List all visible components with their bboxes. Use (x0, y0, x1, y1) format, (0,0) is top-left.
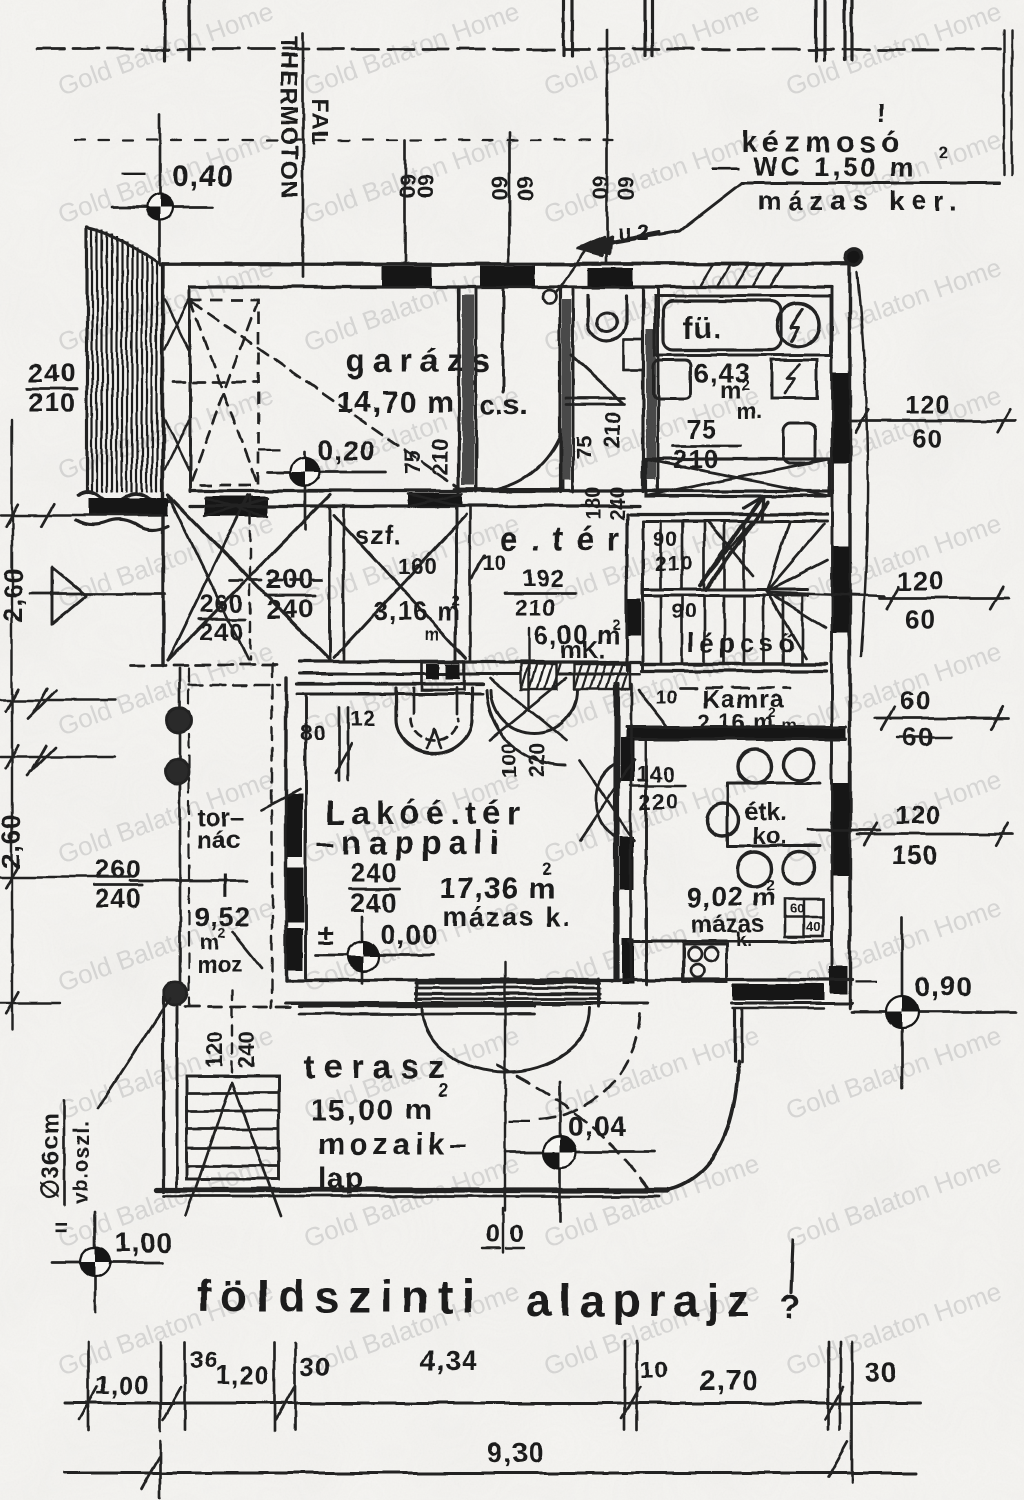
svg-text:— WC 1,50 m: — WC 1,50 m (712, 152, 916, 182)
svg-text:75: 75 (572, 436, 597, 460)
svg-text:120: 120 (905, 390, 951, 420)
svg-text:240: 240 (95, 883, 141, 913)
kezmoso leader arrow (590, 183, 742, 246)
svg-text:m.: m. (736, 398, 762, 423)
retaining strip top curve (87, 228, 163, 266)
terrace sill band (300, 1004, 534, 1007)
window axis line x509 (508, 133, 511, 263)
svg-text:—: — (855, 968, 877, 993)
north-east corner blob (846, 249, 862, 265)
door axis vertical x505 (504, 962, 506, 1210)
svg-text:15,00 m: 15,00 m (310, 1094, 434, 1127)
nappali east door X and arc (580, 760, 634, 840)
terrace right edge (733, 1010, 736, 1062)
top tick pair x645 (643, 0, 646, 55)
svg-text:=: = (54, 1215, 68, 1242)
north wall window fill 3 above wc (588, 268, 633, 286)
svg-text:260: 260 (95, 854, 141, 884)
svg-text:30: 30 (300, 1352, 331, 1382)
svg-text:36: 36 (190, 1347, 219, 1374)
tornac post 3 (163, 981, 187, 1005)
wc door swing diagonal (571, 355, 623, 403)
terrace rounded corner (668, 1062, 739, 1190)
svg-text:120: 120 (898, 566, 944, 596)
svg-text:60: 60 (413, 174, 438, 198)
svg-text:210: 210 (655, 552, 693, 575)
tornac post line (179, 668, 182, 1005)
stairs top wall (630, 512, 827, 515)
nappali west wall window fills (287, 795, 303, 857)
svg-text:mozaik–: mozaik– (318, 1128, 471, 1161)
tornac dim line (130, 880, 247, 883)
tornac top dashed line (130, 664, 283, 667)
kamra bottom wall (626, 728, 846, 738)
garage right wall (457, 287, 460, 492)
svg-text:0,40: 0,40 (172, 160, 234, 193)
terrace stairs block (187, 1076, 279, 1179)
vb oszl leader line (98, 998, 170, 1108)
south wall inner line (286, 1002, 648, 1005)
svg-text:!: ! (877, 98, 886, 128)
stairs left wall smudge (628, 598, 641, 636)
svg-text:240: 240 (234, 1031, 259, 1068)
etk leader line (808, 829, 880, 832)
hall bottom wall upper line (300, 660, 640, 663)
svg-text:c.s.: c.s. (480, 389, 527, 420)
bathtub (646, 459, 829, 496)
thermoton leader line (302, 33, 305, 277)
szf cross bracing (334, 515, 466, 658)
hatched pier 2 (574, 664, 630, 689)
svg-text:0,04: 0,04 (568, 1111, 627, 1142)
svg-text:mázas k.: mázas k. (443, 902, 572, 932)
garage long dashed diagonal (192, 302, 462, 490)
left dim vertical line (11, 420, 13, 1030)
svg-text:9,02 m: 9,02 m (687, 882, 777, 912)
svg-text:30: 30 (865, 1357, 898, 1388)
svg-text:75: 75 (400, 451, 425, 475)
svg-text:—: — (258, 436, 280, 461)
terrace top dashed edge (185, 1006, 300, 1009)
svg-text:1,00: 1,00 (95, 1370, 150, 1400)
svg-text:2,60: 2,60 (0, 567, 28, 622)
svg-text:2: 2 (612, 617, 620, 634)
svg-text:60: 60 (912, 424, 943, 454)
svg-text:terasz: terasz (304, 1048, 453, 1085)
right edge vertical dash top (1011, 30, 1013, 175)
svg-text:—: — (122, 159, 146, 186)
east wall bowed extension curve (857, 272, 868, 655)
window axis line x405 (404, 140, 407, 263)
kezmoso underline (742, 182, 1000, 185)
svg-text:160: 160 (398, 554, 438, 579)
svg-text:—: — (508, 1108, 530, 1133)
svg-text:210: 210 (514, 595, 557, 622)
svg-text:0,20: 0,20 (318, 435, 377, 466)
retaining strip left edge (85, 228, 88, 492)
svg-text:u.2: u.2 (618, 220, 650, 245)
west garage wall inner line (189, 287, 192, 492)
wc left wall (558, 287, 561, 492)
fu rounded rect (663, 301, 781, 350)
rough filter def and plan group (0, 0, 1, 1)
hatched retaining strip top-left (87, 228, 162, 492)
retaining strip footing blob (78, 491, 172, 503)
dining circle left (707, 804, 739, 836)
stairs fan extension line (770, 592, 885, 596)
terrace left wall (161, 990, 164, 1192)
kitchen counter line (629, 940, 831, 943)
west garage wall diagonal braces (165, 300, 189, 350)
north exterior wall outer line (163, 262, 853, 266)
porch x-panel frame (190, 505, 330, 508)
svg-text:60: 60 (512, 176, 537, 200)
level marker -0.04 symbol (505, 1151, 655, 1154)
hall bottom wall lower line (300, 673, 640, 676)
svg-text:e.tér: e.tér (500, 521, 633, 557)
svg-text:alaprajz: alaprajz (526, 1275, 758, 1326)
top tick pair x816 (814, 0, 817, 60)
svg-text:240: 240 (350, 858, 398, 888)
entry door swing arc (491, 690, 577, 733)
dining table rect (728, 782, 820, 785)
svg-text:lépcső: lépcső (687, 628, 799, 658)
svg-text:∅36cm: ∅36cm (37, 1113, 64, 1200)
top tick pair left wall (163, 0, 166, 60)
stair direction arrow (700, 498, 762, 585)
svg-text:±: ± (318, 919, 333, 950)
south wall outer line (286, 978, 852, 981)
svg-text:60: 60 (790, 901, 804, 916)
big dashed swing arc on terrace (497, 1065, 648, 1188)
garage dashed rect (190, 300, 258, 485)
terrace door half swing arc (422, 1008, 590, 1072)
bath top counter frame (655, 296, 831, 355)
svg-text:1,00: 1,00 (115, 1227, 174, 1258)
hall dashed line (230, 579, 330, 582)
hatched pier 1 (521, 664, 557, 689)
left dim tick y1003 (0, 1002, 60, 1004)
stairs bottom wall (642, 662, 827, 665)
kamra dashes (680, 687, 790, 690)
svg-text:2,70: 2,70 (700, 1365, 759, 1396)
wc washbasin (588, 295, 626, 341)
svg-text:80: 80 (300, 720, 326, 745)
svg-text:földszinti: földszinti (196, 1271, 483, 1322)
svg-text:2: 2 (452, 593, 460, 610)
svg-text:THERMOTON: THERMOTON (275, 36, 302, 199)
east wall window fill stairs (833, 546, 849, 633)
level marker -0.40 symbol (112, 206, 212, 209)
title exclamation (791, 1240, 793, 1292)
toilet rounded rect (783, 423, 816, 463)
svg-text:40: 40 (806, 919, 820, 934)
vent grid box (785, 899, 823, 936)
nappali west wall outer (284, 678, 287, 980)
svg-text:60: 60 (613, 176, 638, 200)
svg-text:mázas: mázas (691, 911, 764, 938)
wc right wall (shared with bath) (641, 287, 644, 492)
nappali top door arc (487, 690, 565, 766)
svg-text:2,60: 2,60 (0, 813, 26, 868)
nappali terrace window band (415, 982, 600, 985)
west garage wall outer line (161, 264, 164, 665)
garage door sill dark block (205, 496, 267, 516)
kitchen left wall (616, 684, 619, 980)
washing machine circle (777, 304, 819, 346)
bath boiler rect with bolt (771, 360, 817, 398)
szf right wall (455, 508, 458, 662)
svg-text:120: 120 (895, 800, 941, 830)
svg-text:4,34: 4,34 (420, 1345, 479, 1376)
east wall window fill bath (833, 373, 849, 463)
bottom dim second line ticks (159, 1440, 162, 1497)
svg-text:vb.oszl.: vb.oszl. (70, 1120, 93, 1205)
dim tick pair (338, 707, 341, 780)
dining circles lower (737, 852, 771, 886)
level marker 1.00 symbol (52, 1261, 162, 1264)
svg-text:2: 2 (766, 877, 775, 894)
stair treads upper flight (660, 523, 663, 589)
stairs left wall (625, 514, 628, 670)
garage dashed horizontal (173, 381, 258, 384)
left dim tick y515 (0, 514, 162, 516)
east exterior wall outer line (848, 264, 851, 1008)
svg-text:–nappali: –nappali (316, 824, 506, 861)
svg-text:0,00: 0,00 (380, 919, 439, 950)
svg-text:0,90: 0,90 (915, 971, 974, 1002)
svg-text:2: 2 (742, 377, 750, 394)
terrace stair axis dashed (231, 990, 233, 1080)
middle wall lower line (190, 504, 640, 507)
svg-text:m: m (424, 624, 440, 644)
svg-text:12: 12 (350, 706, 376, 731)
svg-text:mázas ker.: mázas ker. (757, 186, 964, 216)
porch dashed verticals (249, 495, 251, 660)
east wall window fill kitchen (833, 783, 849, 875)
svg-text:60: 60 (900, 686, 931, 716)
porch door line (30, 593, 165, 596)
top tick pair x563 (561, 0, 564, 55)
svg-text:?: ? (780, 1288, 801, 1326)
level marker -0.90 symbol (852, 1011, 1015, 1014)
nappali west wall inner (305, 694, 308, 980)
partial wall x503 (502, 287, 505, 392)
level marker 0.00 symbol (316, 954, 434, 957)
svg-text:192: 192 (522, 565, 565, 592)
svg-text:210: 210 (600, 411, 625, 448)
top dashed border line (38, 48, 1000, 51)
fireplace kandallo (396, 688, 472, 753)
svg-text:10: 10 (640, 1357, 669, 1384)
terrace bottom wall (156, 1187, 668, 1192)
garage dashed diagonal X (190, 300, 258, 485)
north wall window fill 1 (382, 266, 432, 286)
svg-text:3,16 m: 3,16 m (374, 596, 461, 626)
terrace door arc from kitchen dashed (534, 1014, 640, 1120)
wc arrow to basin (582, 232, 660, 247)
kamra door swing (638, 690, 668, 728)
svg-text:210: 210 (428, 438, 453, 475)
window axis line x607 (606, 30, 609, 263)
svg-text:140: 140 (636, 762, 676, 787)
svg-text:60: 60 (905, 604, 936, 634)
stair landing double line (643, 588, 808, 591)
north wall window fill 2 (480, 266, 535, 286)
svg-text:0: 0 (509, 1220, 523, 1248)
middle wall upper line (190, 489, 832, 492)
svg-text:2: 2 (768, 705, 776, 721)
svg-text:150: 150 (892, 840, 938, 870)
kitchen window dark fill (733, 984, 824, 1000)
north wall hatch ticks (700, 265, 712, 285)
svg-text:14,70 m: 14,70 m (337, 386, 454, 419)
svg-text:1,20: 1,20 (216, 1360, 271, 1390)
svg-text:nác: nác (197, 826, 240, 854)
svg-text:fü.: fü. (683, 312, 723, 345)
tornac leader (262, 790, 300, 810)
svg-text:mK.: mK. (560, 637, 605, 664)
svg-text:240: 240 (350, 888, 398, 918)
svg-text:2: 2 (218, 925, 226, 941)
nappali top door X (490, 678, 566, 740)
stair treads lower flight (660, 597, 663, 663)
mid wall dark marks (408, 493, 462, 506)
svg-text:FAL: FAL (306, 98, 333, 146)
svg-text:|: | (222, 871, 229, 898)
ramp sail wedge right of garage (497, 429, 563, 489)
svg-text:90: 90 (653, 528, 678, 551)
svg-text:9,30: 9,30 (487, 1437, 546, 1468)
left dim tick y757 (0, 756, 115, 758)
level marker -0.20 symbol (268, 471, 385, 474)
bath small sink rect (653, 360, 691, 399)
top tick pair x845 (843, 0, 846, 60)
bottom dim ticks and slashes (87, 1342, 90, 1430)
kezmoso leader curl (542, 290, 556, 304)
svg-text:0: 0 (486, 1220, 500, 1248)
tornac dashed inner line (271, 664, 273, 1008)
svg-text:2: 2 (438, 1080, 448, 1100)
terrace stairs V lines (186, 1082, 232, 1216)
svg-text:210: 210 (28, 388, 76, 418)
svg-text:moz: moz (198, 952, 242, 977)
svg-text:180: 180 (583, 487, 605, 520)
svg-text:2: 2 (938, 143, 947, 162)
svg-text:ko.: ko. (752, 823, 787, 850)
porch left door triangle (52, 568, 86, 624)
nappali east wall (613, 684, 616, 980)
left dim tick y877 (0, 876, 130, 878)
cooktop square (683, 944, 727, 982)
kitchen left wall bottom dark (622, 938, 634, 984)
chimney flue squares (421, 661, 464, 690)
svg-text:240: 240 (28, 358, 76, 388)
svg-text:90: 90 (672, 600, 697, 623)
hob circles top (738, 749, 772, 783)
nappali top wall (297, 682, 483, 685)
diagonal double slashes left (28, 690, 56, 718)
szf left wall (329, 508, 332, 662)
svg-text:220: 220 (639, 790, 679, 815)
stair winder fan (767, 521, 790, 591)
north exterior wall inner line (190, 285, 832, 288)
svg-text:75: 75 (686, 414, 717, 444)
east exterior wall inner line (831, 287, 834, 985)
left dim tick y700 (0, 699, 115, 701)
svg-text:étk.: étk. (745, 799, 786, 826)
kitchen left wall dark fills (620, 738, 634, 782)
wc threshold double line (566, 397, 625, 400)
svg-text:2: 2 (542, 859, 551, 878)
svg-text:120: 120 (202, 1031, 227, 1068)
bottom dim second line (65, 1472, 917, 1475)
tornac post 1 (167, 708, 191, 732)
bottom dim main line (65, 1402, 920, 1405)
svg-text:17,36 m: 17,36 m (439, 872, 556, 905)
wc door leaf rect (624, 340, 643, 370)
porch x braces (168, 495, 330, 660)
tornac post 2 (165, 760, 189, 784)
svg-text:10: 10 (655, 687, 677, 709)
second dashed line y140 (75, 139, 620, 141)
stair cross X (707, 521, 753, 576)
